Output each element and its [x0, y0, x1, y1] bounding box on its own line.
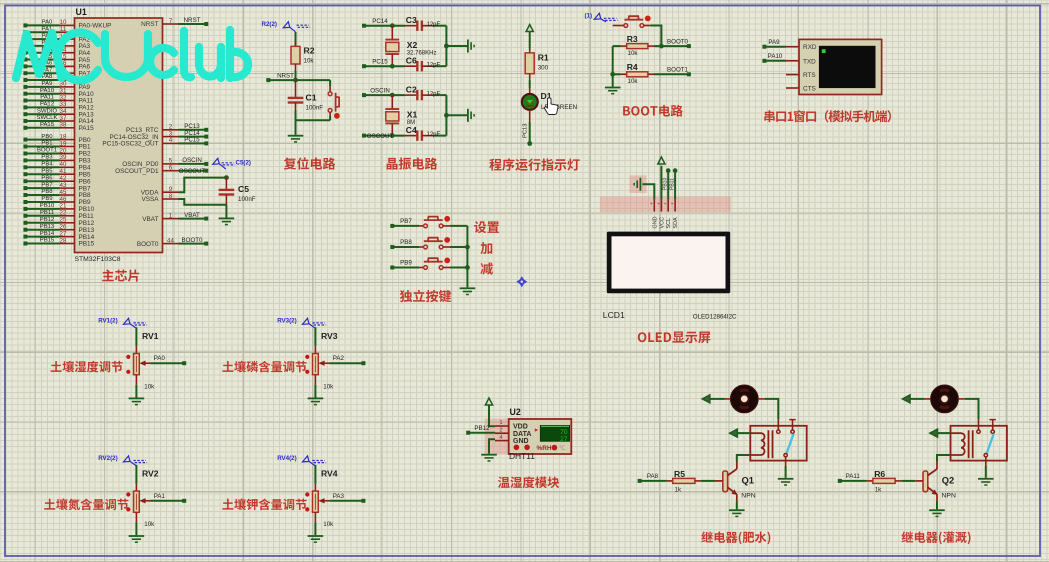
svg-text:PB4: PB4: [41, 162, 53, 168]
U1 pin name PB14: [79, 234, 95, 241]
wire top of RV2: [135, 465, 137, 491]
potentiometer RV4 10k: [305, 469, 338, 529]
wire R6 to Q2 base: [901, 480, 923, 482]
svg-text:12pF: 12pF: [427, 132, 441, 138]
wire PA2 to pin 12: [23, 33, 74, 41]
svg-text:R5: R5: [674, 469, 685, 479]
capacitor C6 12pF: [405, 55, 433, 71]
virtual terminal box: [799, 39, 882, 94]
svg-text:100nF: 100nF: [238, 196, 256, 203]
wire OSCOUT pin 6: [163, 165, 209, 175]
wire PB11 to pin 22: [23, 210, 74, 218]
svg-text:PA11: PA11: [846, 473, 861, 480]
U1 pin name PB1: [79, 144, 92, 151]
U1 pin name OSCIN_PD0: [122, 161, 159, 168]
power terminal left of motor: [903, 395, 931, 403]
wire motor to relay contact: [958, 399, 978, 430]
svg-text:100nF: 100nF: [306, 104, 324, 111]
svg-text:PB6: PB6: [41, 175, 53, 181]
wire PB6 to pin 42: [23, 175, 74, 183]
svg-text:OSCIN: OSCIN: [182, 157, 202, 164]
svg-text:PA15: PA15: [79, 125, 95, 132]
svg-text:PA0: PA0: [42, 20, 53, 26]
svg-text:R2(2): R2(2): [262, 21, 277, 28]
potentiometer RV1 10k: [126, 331, 159, 391]
wire PA7 to pin 17: [23, 67, 74, 75]
wire left rail of BOOT divider: [610, 46, 615, 87]
svg-text:27: 27: [560, 436, 568, 443]
label BOOT circuit: [623, 105, 683, 117]
blue label RV1(2): [98, 318, 147, 329]
svg-text:NRST: NRST: [277, 73, 294, 80]
label main chip: [102, 269, 139, 281]
U1 pin name PA1: [79, 29, 91, 36]
svg-text:PA11: PA11: [40, 95, 54, 101]
U1 pin name PB7: [79, 185, 92, 192]
crystal X2 32.768KHz: [385, 26, 436, 69]
svg-text:19: 19: [60, 140, 67, 147]
svg-text:BOOT0: BOOT0: [137, 241, 159, 248]
wire top of RV3: [314, 327, 316, 353]
svg-text:RTS: RTS: [803, 72, 816, 79]
ground of RV1: [129, 398, 145, 404]
DHT11 sensor U2 body: [495, 407, 571, 454]
wire PB3 to pin 39: [23, 154, 74, 162]
svg-text:R3: R3: [627, 34, 638, 44]
wire SDA PB11: [669, 168, 677, 199]
relay contacts and blade: [777, 420, 796, 457]
svg-text:R4: R4: [627, 62, 638, 72]
wire Q2 emitter to ground: [936, 494, 938, 509]
resistor R3 10k: [613, 34, 654, 57]
wire PA11 to resistor R6: [838, 473, 867, 483]
wire VDDA pin 9 to C5: [163, 178, 227, 193]
selection highlight around OLED pins: [600, 175, 731, 212]
U1 pin name PB4: [79, 165, 92, 172]
svg-text:70: 70: [560, 429, 568, 436]
U1 pin name PA10: [79, 91, 95, 98]
svg-text:SWCLK: SWCLK: [37, 115, 58, 121]
DHT11 display screen: [535, 426, 570, 444]
svg-text:10k: 10k: [304, 58, 315, 65]
svg-text:RV1(2): RV1(2): [98, 318, 118, 325]
label independent keys: [400, 290, 451, 302]
capacitor C5 100nF: [219, 178, 256, 205]
U1 pin name PA9: [79, 84, 91, 91]
resistor R6 1k: [867, 469, 901, 494]
svg-text:BOOT1: BOOT1: [667, 67, 689, 74]
svg-text:RV4: RV4: [321, 469, 338, 479]
U1 pin name VBAT: [142, 216, 158, 223]
push button BOOT: [613, 16, 662, 47]
svg-text:CTS: CTS: [803, 86, 816, 93]
svg-text:PB10: PB10: [662, 178, 668, 190]
wire BOOT0 terminal: [654, 38, 691, 48]
svg-text:R1: R1: [538, 53, 549, 63]
wire VBAT pin 1: [163, 212, 209, 221]
wire BOOT1 to pin 20: [23, 147, 74, 155]
svg-text:C6: C6: [406, 55, 417, 65]
wire bottom of RV2 to ground: [135, 512, 137, 535]
ground of Q2: [929, 510, 945, 516]
label set key: [474, 221, 499, 233]
label soil moisture adjust: [51, 361, 123, 373]
svg-text:C2: C2: [406, 84, 417, 94]
motor of 继电器(灌溉): [931, 385, 959, 413]
label serial window: [764, 110, 891, 122]
wire LED to PC13 node: [523, 122, 532, 146]
wire wiper RV1 to PA0: [146, 355, 187, 365]
wire to reset ground: [295, 120, 297, 135]
svg-text:OSCOUT: OSCOUT: [367, 133, 394, 140]
svg-text:1k: 1k: [875, 486, 882, 493]
blue label RV2(2): [98, 455, 147, 466]
capacitor C4 12pF: [405, 125, 433, 141]
U1 pin name PB8: [79, 192, 92, 199]
svg-text:PB14: PB14: [40, 231, 55, 237]
wire C3 to right rail: [427, 22, 447, 28]
svg-text:SCL: SCL: [666, 218, 672, 229]
wire PA4 to pin 14: [23, 47, 74, 55]
svg-text:NPN: NPN: [942, 493, 956, 500]
push button PB8: [424, 237, 451, 249]
U1 pin name PC13_RTC: [126, 127, 159, 134]
wire PA12 to pin 33: [23, 101, 74, 109]
svg-text:PC15: PC15: [372, 59, 388, 66]
svg-text:7: 7: [169, 18, 173, 25]
svg-text:PB7: PB7: [41, 182, 52, 188]
ground of reset circuit: [288, 136, 304, 142]
svg-text:PC15-OSC32_OUT: PC15-OSC32_OUT: [102, 141, 158, 148]
wire PB15 to pin 28: [23, 237, 74, 245]
blue label RV3(2): [277, 318, 326, 329]
svg-text:X2: X2: [407, 40, 418, 50]
wire OSCIN pin 5: [163, 157, 209, 166]
wire GND pin to ground: [489, 439, 495, 454]
svg-text:12pF: 12pF: [427, 63, 441, 69]
blue origin marker: [516, 276, 527, 287]
wire OLED GND to ground: [642, 184, 654, 199]
U1 pin name BOOT0: [137, 241, 159, 248]
svg-text:PB11: PB11: [40, 210, 54, 216]
svg-text:22: 22: [60, 210, 67, 217]
wire PB4 to pin 40: [23, 161, 74, 169]
wire PA0 to pin 10: [23, 19, 74, 27]
svg-text:STM32F103C8: STM32F103C8: [75, 256, 121, 263]
svg-text:12pF: 12pF: [427, 92, 441, 98]
svg-text:NRST: NRST: [141, 21, 158, 28]
resistor R4 10k: [613, 62, 654, 85]
label minus key: [480, 262, 492, 274]
capacitor C3 12pF: [405, 15, 433, 31]
svg-text:GND: GND: [513, 438, 529, 445]
power terminal for LED: [526, 25, 533, 49]
right rail wire to ground: [444, 95, 467, 136]
wire VSSA pin 8 to C5 ground: [163, 193, 227, 205]
svg-text:PB3: PB3: [41, 155, 53, 161]
svg-text:PB8: PB8: [400, 239, 412, 246]
wire NRST net to R2: [266, 73, 330, 83]
wire PB12 to DATA: [466, 425, 495, 435]
svg-text:PA9: PA9: [42, 81, 53, 87]
svg-text:1k: 1k: [675, 486, 682, 493]
svg-text:℃: ℃: [559, 446, 566, 452]
U1 pin name PB0: [79, 137, 92, 144]
U1 pin name PA0-WKUP: [79, 23, 112, 30]
wire PC13 pin 2: [163, 123, 209, 132]
svg-text:PB15: PB15: [40, 238, 55, 244]
label soil potassium adjust: [222, 498, 306, 510]
svg-text:PA10: PA10: [768, 53, 783, 60]
svg-text:RXD: RXD: [803, 44, 817, 51]
DHT11 buttons and RH label: [514, 445, 566, 453]
svg-text:VCC: VCC: [659, 217, 665, 228]
wire SWDIO to pin 34: [23, 108, 74, 116]
wire wiper RV4 to PA3: [325, 493, 366, 503]
svg-text:VSSA: VSSA: [141, 196, 159, 203]
wire PB12 to pin 25: [23, 217, 74, 225]
svg-text:PB12: PB12: [40, 217, 54, 223]
push button PB7: [424, 216, 451, 228]
ground of relay contact: [978, 479, 994, 485]
wire key PB7 to rail: [450, 225, 467, 227]
svg-text:PC14: PC14: [372, 18, 388, 25]
wire PB1 to pin 19: [23, 140, 74, 148]
svg-text:NRST: NRST: [184, 17, 201, 24]
LED D1 LED-GREEN: [522, 91, 577, 122]
blue label R2(2): [262, 21, 311, 32]
svg-text:10k: 10k: [628, 78, 639, 85]
svg-text:PC13: PC13: [523, 123, 529, 138]
wire PC14 row: [362, 18, 405, 28]
label soil phosphorus adjust: [222, 361, 306, 373]
chip U1 STM32F103C8 body: [75, 7, 163, 263]
relay 继电器(肥水) box: [750, 426, 806, 461]
wire NRST pin 7: [163, 17, 209, 26]
svg-text:C1: C1: [306, 93, 317, 103]
wire PA11 to pin 32: [23, 94, 74, 102]
svg-text:RV3: RV3: [321, 331, 338, 341]
svg-text:10k: 10k: [144, 384, 155, 391]
U1 pin name PA14: [79, 118, 95, 125]
ground of Q1: [729, 510, 745, 516]
svg-text:OLED12864I2C: OLED12864I2C: [693, 314, 737, 321]
svg-text:PB8: PB8: [41, 189, 53, 195]
svg-text:10k: 10k: [628, 50, 639, 57]
right rail wire to ground: [444, 26, 467, 66]
power terminal of relay coil: [730, 429, 751, 437]
wire R5 to Q1 base: [701, 480, 723, 482]
svg-text:OSCOUT: OSCOUT: [179, 168, 206, 175]
wire PB10 to pin 21: [23, 203, 74, 211]
wire BOOT0 pin 44: [163, 237, 209, 246]
wire PB8 to pin 45: [23, 189, 74, 197]
crystal X1 8M: [385, 95, 417, 138]
svg-text:U1: U1: [76, 7, 87, 17]
U1 pin name PB11: [79, 213, 95, 220]
U1 pin name VDDA: [141, 189, 159, 196]
svg-text:BOOT0: BOOT0: [667, 38, 689, 45]
svg-text:VBAT: VBAT: [142, 216, 158, 223]
U1 pin name PA2: [79, 36, 91, 43]
OLED pin stubs GND VCC SCL SDA: [651, 200, 679, 229]
U1 pin name PB13: [79, 227, 95, 234]
power terminal DHT11: [485, 398, 495, 426]
svg-text:X1: X1: [407, 109, 418, 119]
svg-text:R6: R6: [874, 469, 885, 479]
power terminal for OLED VCC: [658, 157, 665, 200]
label reset circuit: [284, 157, 336, 169]
push button reset: [296, 80, 340, 120]
U1 pin name PB12: [79, 220, 95, 227]
svg-text:NPN: NPN: [741, 493, 755, 500]
svg-text:12pF: 12pF: [427, 22, 441, 28]
wire motor to relay contact: [758, 399, 778, 430]
U1 pin name PA6: [79, 64, 91, 71]
U1 pin name PA5: [79, 57, 91, 64]
svg-text:PB5: PB5: [41, 168, 53, 174]
svg-text:RV2(2): RV2(2): [98, 455, 118, 462]
wire relay common to ground: [985, 457, 987, 478]
potentiometer RV2 10k: [126, 469, 159, 529]
U1 pin name PB3: [79, 158, 92, 165]
svg-text:2: 2: [499, 427, 502, 433]
svg-text:PB9: PB9: [41, 196, 52, 202]
ground right of crystal: [468, 40, 474, 53]
label plus key: [480, 242, 492, 254]
svg-text:GND: GND: [652, 216, 658, 228]
svg-text:C4: C4: [406, 125, 417, 135]
U1 pin name PA12: [79, 105, 95, 112]
svg-text:44: 44: [167, 237, 174, 244]
resistor R2 10k: [291, 32, 315, 80]
label program run indicator: [489, 158, 579, 170]
U1 pin name PC14-OSC32_IN: [109, 134, 158, 141]
svg-text:%RH: %RH: [537, 445, 552, 452]
svg-text:RV2: RV2: [142, 469, 159, 479]
svg-text:PB10: PB10: [40, 203, 55, 209]
svg-text:PA8: PA8: [647, 473, 659, 480]
U1 pin name PB2: [79, 151, 92, 158]
blue label (1): [585, 13, 618, 22]
junction node at C5 top: [224, 175, 229, 180]
blue label RV4(2): [277, 455, 326, 466]
U1 pin name PA7: [79, 70, 91, 77]
U1 pin name PB9: [79, 199, 92, 206]
wire C2 to right rail: [427, 92, 447, 98]
svg-text:PB5: PB5: [79, 171, 92, 178]
svg-text:6: 6: [169, 165, 173, 172]
wire PA5 to pin 15: [23, 53, 74, 61]
svg-text:10k: 10k: [323, 384, 334, 391]
wire PA6 to pin 16: [23, 60, 74, 68]
svg-text:(1): (1): [585, 13, 593, 20]
svg-text:R2: R2: [304, 46, 315, 56]
svg-text:PA9: PA9: [768, 39, 780, 46]
wire wiper RV3 to PA2: [325, 355, 366, 365]
capacitor C2 12pF: [405, 84, 433, 100]
svg-text:VDD: VDD: [513, 423, 528, 430]
svg-text:TXD: TXD: [803, 58, 816, 65]
wire PC15 pin 4: [163, 137, 209, 146]
U1 pin name VSSA: [141, 196, 159, 203]
wire bottom of RV4 to ground: [314, 512, 316, 535]
svg-text:Q1: Q1: [742, 475, 755, 486]
svg-text:PA8: PA8: [42, 74, 53, 80]
U1 pin name NRST: [141, 21, 158, 28]
svg-text:PA15: PA15: [40, 122, 55, 128]
wire PA8 to pin 29: [23, 74, 74, 82]
svg-text:OSCOUT_PD1: OSCOUT_PD1: [115, 168, 159, 175]
wire Q1 emitter to ground: [736, 494, 738, 509]
label 继电器(肥水): [701, 531, 770, 544]
U1 pin name PB5: [79, 171, 92, 178]
ground of RV2: [129, 536, 145, 542]
MCUclub watermark: [16, 30, 248, 81]
svg-text:45: 45: [60, 189, 67, 196]
svg-text:PA0: PA0: [154, 355, 166, 362]
power terminal left of motor: [702, 395, 730, 403]
U1 pin name PA8: [79, 77, 91, 84]
svg-text:BOOT1: BOOT1: [37, 148, 57, 154]
svg-text:1: 1: [499, 420, 502, 426]
ground of relay contact: [778, 479, 794, 485]
U1 pin name PA15: [79, 125, 95, 132]
wire PB8 to key: [390, 239, 423, 249]
svg-text:OSCIN: OSCIN: [370, 88, 390, 95]
U1 pin name PB10: [79, 206, 95, 213]
ground of RV4: [308, 536, 324, 542]
svg-text:300: 300: [538, 65, 549, 72]
wire PA9 to RXD: [762, 39, 799, 49]
svg-text:PA3: PA3: [333, 493, 345, 500]
label crystal circuit: [387, 157, 438, 169]
svg-text:PB1: PB1: [79, 144, 92, 151]
wire wiper RV2 to PA1: [146, 493, 187, 503]
capacitor C1 100nF: [288, 80, 324, 120]
relay coil: [951, 430, 973, 458]
pin RTS stub: [786, 74, 799, 76]
resistor R5 1k: [667, 469, 701, 494]
svg-text:10k: 10k: [323, 521, 334, 528]
svg-text:40: 40: [60, 161, 67, 168]
wire SCL PB10: [662, 168, 670, 199]
svg-text:RV1: RV1: [142, 331, 159, 341]
svg-text:RV4(2): RV4(2): [277, 455, 297, 462]
wire C6 to right rail: [427, 63, 447, 69]
wire PB7 to pin 43: [23, 182, 74, 190]
wire PB9 to key: [390, 260, 423, 270]
wire C5 to ground: [225, 205, 227, 218]
wire bottom of RV3 to ground: [314, 375, 316, 398]
relay 继电器(灌溉) box: [951, 426, 1007, 461]
svg-text:PB13: PB13: [40, 224, 55, 230]
relay contacts and blade: [977, 420, 996, 457]
label OLED display: [638, 332, 711, 344]
svg-text:28: 28: [60, 237, 67, 244]
wire PB0 to pin 18: [23, 133, 74, 141]
power terminal of relay coil: [930, 429, 951, 437]
wire PA9 to pin 30: [23, 81, 74, 89]
svg-text:10k: 10k: [144, 521, 155, 528]
wire PA10 to pin 31: [23, 88, 74, 96]
wire OSCOUT row: [362, 133, 405, 140]
svg-text:1: 1: [169, 212, 173, 219]
wire PA8 to resistor R5: [638, 473, 667, 483]
U1 pin name PB15: [79, 241, 95, 248]
svg-text:PB9: PB9: [400, 260, 412, 267]
relay coil: [750, 430, 772, 458]
